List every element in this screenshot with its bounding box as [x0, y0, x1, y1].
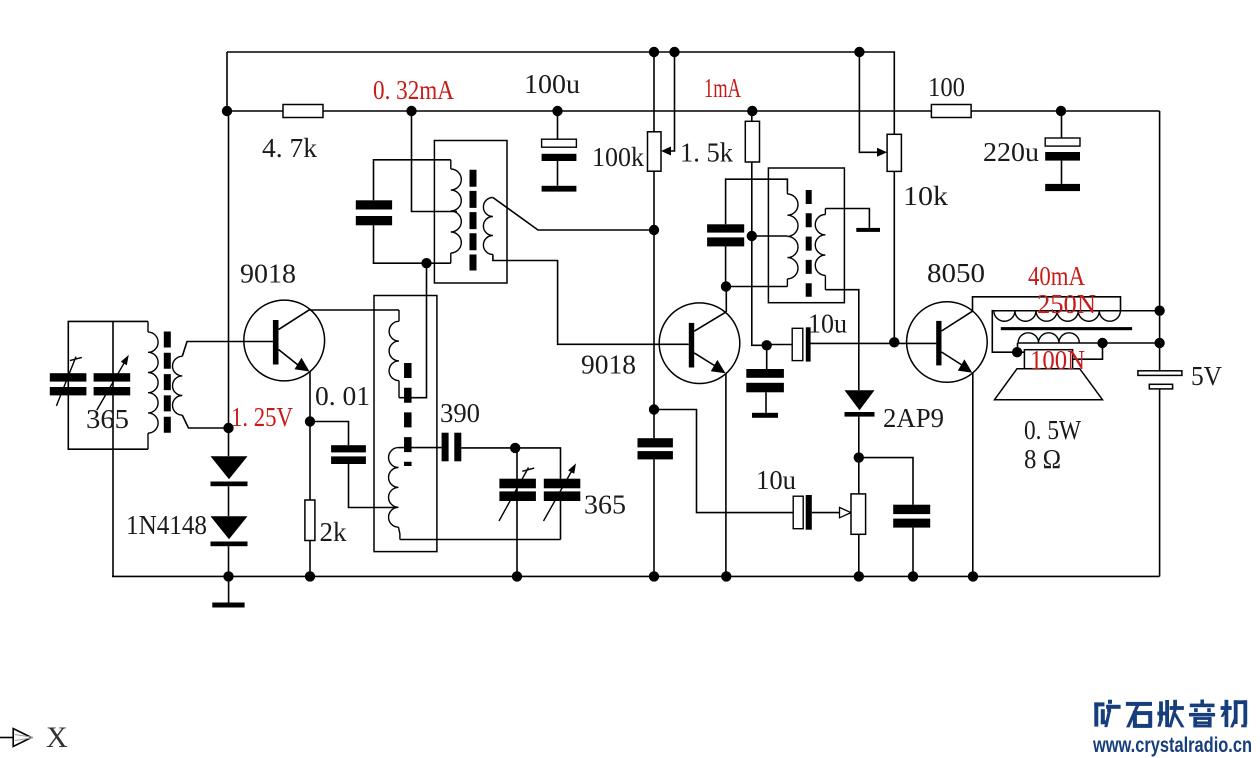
label 100	[928, 72, 965, 102]
node junction dot 21	[1154, 306, 1164, 316]
diode D2 1N4148	[211, 516, 248, 546]
wire Q1 base from T1 secondary	[182, 342, 273, 357]
label 250N	[1037, 289, 1096, 319]
svg-text:250N: 250N	[1037, 289, 1096, 319]
label 100k	[592, 142, 644, 172]
label 10u coupling	[808, 309, 847, 339]
wire 390 to tank2	[461, 447, 515, 449]
label 1N4148	[126, 510, 207, 540]
svg-text:10u: 10u	[808, 309, 847, 339]
wire T5 primary left end down	[992, 311, 1024, 353]
svg-text:365: 365	[584, 490, 626, 520]
inductor T3 upper	[389, 310, 399, 398]
svg-text:2k: 2k	[320, 517, 348, 547]
capacitor C2 0.01	[331, 445, 366, 464]
node junction dot 3	[854, 47, 864, 57]
svg-text:100N: 100N	[1030, 345, 1085, 375]
label 9018 Q2	[581, 350, 636, 380]
svg-text:365: 365	[86, 404, 129, 434]
wire T1 secondary bottom to bias node	[182, 415, 228, 428]
node junction dot 1	[649, 47, 659, 57]
capacitor C1b variable 365	[94, 373, 131, 395]
capacitor C5 390	[442, 433, 462, 462]
wire top supply rail	[227, 52, 894, 134]
capacitor C7 T4 resonator	[707, 224, 744, 246]
wire T4 primary top to tank cap	[726, 179, 788, 286]
inductor T5 secondary 100N	[1018, 333, 1160, 343]
label 100N	[1030, 345, 1085, 375]
wire bottom ground rail	[112, 575, 1160, 577]
logo crystalradio chinese	[1094, 700, 1247, 728]
wire T2 secondary bottom to Q2 base	[493, 255, 689, 345]
wire battery negative to ground rail	[1159, 389, 1161, 577]
svg-text:8050: 8050	[927, 258, 985, 288]
label 1.5k	[680, 138, 733, 168]
arrow C1b tuning	[97, 355, 129, 410]
wire tank2 top and right side	[515, 448, 560, 540]
wire detector output to filter cap	[859, 458, 913, 577]
inductor T5 primary 250N	[994, 311, 1160, 322]
wire Q2 collector node to T4 bottom	[726, 287, 787, 313]
node junction dot 29	[854, 571, 864, 581]
logo crystalradio url	[1092, 733, 1252, 757]
wire T2 bottom node to T3 winding	[399, 263, 427, 398]
ground below diodes	[212, 603, 244, 608]
core T1	[164, 332, 171, 434]
node junction dot 15	[854, 452, 864, 462]
node junction dot 24	[223, 571, 233, 581]
wire 100k pot bottom / detector bus	[653, 171, 655, 576]
node junction dot 25	[305, 571, 315, 581]
inductor T4 secondary	[815, 209, 825, 290]
node junction dot 9	[421, 258, 431, 268]
wire Q1 collector to T3	[310, 309, 400, 311]
node junction dot 20	[1097, 338, 1107, 348]
wire tank1 centre branch to ground rail	[112, 321, 114, 576]
wire T5 secondary left end to speaker node	[1017, 343, 1019, 352]
node junction dot 14	[649, 404, 659, 414]
potentiometer RP3 volume	[851, 494, 866, 534]
label 1.25V	[231, 402, 293, 432]
node junction dot 6	[552, 106, 562, 116]
wire 1.5k branch down to Q2 junction	[752, 111, 767, 345]
transistor Q3 8050	[907, 302, 988, 383]
node junction dot 26	[512, 571, 522, 581]
wire 2AP9 cathode to volume pot	[858, 417, 860, 577]
ground T4 secondary top	[856, 228, 880, 232]
svg-text:220u: 220u	[983, 137, 1040, 167]
node junction dot 13	[889, 337, 899, 347]
wire 10k pot wiper arm	[859, 52, 887, 157]
label 365 tank1	[86, 404, 129, 434]
node junction dot 7	[747, 106, 757, 116]
node junction dot 2	[669, 47, 679, 57]
svg-text:1. 5k: 1. 5k	[680, 138, 733, 168]
svg-text:1N4148: 1N4148	[126, 510, 207, 540]
capacitor C12 10u volume	[793, 495, 812, 530]
svg-text:100k: 100k	[592, 142, 644, 172]
wire 100k pot top to top rail	[653, 52, 655, 132]
svg-text:0. 5W: 0. 5W	[1024, 415, 1081, 445]
wire node B1 branch down to T2 tap	[412, 111, 458, 212]
node junction dot 17	[305, 416, 315, 426]
label 9018 Q1	[240, 259, 296, 289]
node junction dot 23	[721, 281, 731, 291]
node T4 frame box	[768, 168, 844, 303]
wire T4 secondary top to RF ground	[825, 209, 869, 228]
wire diode bias branch	[228, 428, 230, 576]
inductor T1 secondary	[173, 356, 183, 415]
core T3	[404, 363, 412, 466]
wire T4 centre tap	[752, 235, 788, 237]
label 8050	[927, 258, 985, 288]
svg-text:X: X	[46, 721, 68, 754]
node junction dot 12	[762, 340, 772, 350]
inductor T3 lower	[389, 448, 400, 540]
ground below 220u	[1045, 184, 1080, 191]
node T2 frame box	[434, 141, 507, 284]
capacitor C8 detector filter	[638, 438, 673, 459]
svg-text:1mA: 1mA	[704, 73, 741, 103]
label 1mA	[704, 73, 741, 103]
capacitor C13 AF filter	[893, 505, 930, 528]
transistor Q1 9018	[244, 300, 325, 381]
wire T2 resonating cap loop	[374, 160, 451, 263]
inductor T2 secondary	[483, 198, 493, 255]
wire 10k pot bottom to Q3 base	[893, 171, 895, 342]
diode D1 1N4148	[211, 456, 248, 486]
wire 220u cap branch	[1061, 111, 1063, 184]
wire 0.01 cap branch	[310, 422, 396, 508]
wire Q2 emitter to ground rail	[725, 373, 727, 576]
capacitor C10 10u coupling	[792, 327, 810, 361]
label 0.01	[315, 381, 370, 411]
diode D3 2AP9	[845, 390, 875, 416]
node junction dot 28	[721, 571, 731, 581]
node junction dot 10	[649, 225, 659, 235]
capacitor C6b variable 365	[544, 479, 581, 501]
potentiometer RP1 100k	[648, 132, 662, 171]
node junction dot 16	[223, 423, 233, 433]
svg-text:8 Ω: 8 Ω	[1024, 444, 1061, 474]
svg-text:390: 390	[440, 398, 480, 428]
svg-text:40mA: 40mA	[1028, 261, 1085, 291]
inductor T4 primary	[787, 192, 798, 287]
svg-text:10k: 10k	[903, 181, 949, 211]
transistor Q2 9018	[659, 303, 740, 384]
svg-text:www.crystalradio.cn: www.crystalradio.cn	[1092, 733, 1252, 757]
inductor T2 primary	[451, 160, 462, 263]
svg-text:10u: 10u	[756, 465, 796, 495]
capacitor C1a variable 365	[50, 373, 87, 395]
node junction dot 11	[747, 231, 757, 241]
arrow C1a trimmer	[56, 357, 81, 406]
core T2	[470, 170, 477, 271]
capacitor C6a variable 365	[499, 479, 536, 501]
resistor R1 4.7k	[283, 105, 323, 118]
wire 10u coupling to Q3 base	[767, 343, 937, 344]
wire main B+ rail	[227, 110, 1160, 112]
wire T4 secondary bottom to 2AP9	[825, 290, 858, 391]
label 4.7k	[262, 133, 318, 163]
wire 100k pot wiper arm	[661, 52, 675, 156]
resistor R4 100	[931, 105, 971, 118]
capacitor C9 Q2 bypass	[746, 369, 784, 392]
svg-text:9018: 9018	[240, 259, 296, 289]
wire T3 lower bottom stub	[400, 539, 561, 541]
node tank1 frame	[68, 321, 148, 449]
label 40mA	[1028, 261, 1085, 291]
label 0.5W	[1024, 415, 1081, 445]
label 2k	[320, 517, 348, 547]
label 365 tank2	[584, 490, 626, 520]
node junction dot 22	[1154, 338, 1164, 348]
node junction dot 19	[1012, 347, 1022, 357]
svg-text:1. 25V: 1. 25V	[231, 402, 293, 432]
wire 100u cap branch	[557, 111, 559, 186]
wire T3 lower top stub to 390	[399, 447, 442, 449]
node junction dot 8	[1056, 106, 1066, 116]
resistor R2 2k	[305, 500, 315, 541]
label 390	[440, 398, 480, 428]
ground below Q2 bypass	[752, 413, 778, 418]
capacitor C3 T2 resonator	[356, 200, 392, 225]
svg-text:5V: 5V	[1191, 361, 1222, 391]
core T4	[806, 190, 812, 297]
capacitor C4 100u	[542, 139, 577, 161]
wire Q2 bypass branch	[765, 345, 768, 413]
wire right supply drop to battery	[1159, 111, 1161, 371]
label 0.32mA	[373, 75, 454, 105]
node junction dot 4	[222, 106, 232, 116]
label 8 ohm	[1024, 444, 1061, 474]
label 10k	[903, 181, 949, 211]
svg-text:2AP9: 2AP9	[883, 403, 944, 433]
arrow C6b tuning	[544, 463, 577, 521]
svg-text:0. 01: 0. 01	[315, 381, 370, 411]
svg-text:100: 100	[928, 72, 965, 102]
wire T2 secondary top to node	[493, 198, 654, 231]
potentiometer RP2 10k	[887, 134, 901, 171]
inductor T1 primary	[148, 321, 158, 449]
wire volume wiper	[812, 507, 851, 517]
node junction dot 5	[406, 106, 416, 116]
svg-text:100u: 100u	[524, 69, 581, 99]
speaker BL	[995, 350, 1103, 400]
label 100u	[524, 69, 581, 99]
label 5V	[1191, 361, 1222, 391]
resistor R3 1.5k	[745, 121, 759, 162]
wire Q3 emitter to ground rail	[972, 373, 974, 577]
label 10u volume	[756, 465, 796, 495]
node junction dot 31	[968, 571, 978, 581]
wire ground stem below diodes	[228, 576, 230, 602]
svg-text:0. 32mA: 0. 32mA	[373, 75, 454, 105]
node junction dot 27	[649, 571, 659, 581]
wire diode bias vertical from B+ node	[228, 111, 230, 428]
wire Q1 emitter branch	[309, 371, 311, 576]
wire tank2 left cap to ground rail	[516, 448, 518, 577]
wire AGC feed to volume cap	[654, 410, 793, 513]
capacitor C11 220u	[1045, 138, 1080, 161]
label 2AP9	[883, 403, 944, 433]
battery BT1 5V	[1138, 371, 1182, 389]
svg-text:4. 7k: 4. 7k	[262, 133, 318, 163]
wire speaker right terminal	[1073, 343, 1103, 359]
svg-text:9018: 9018	[581, 350, 636, 380]
node junction dot 30	[908, 571, 918, 581]
ground below 100u	[542, 186, 577, 192]
cursor mark arrow	[0, 729, 33, 747]
label 220u	[983, 137, 1040, 167]
node junction dot 18	[510, 443, 520, 453]
core T5	[1001, 327, 1132, 330]
arrow C6a trimmer	[499, 468, 534, 522]
node T3 frame box	[374, 296, 437, 552]
wire Q3 collector to output transformer	[973, 297, 1121, 311]
cursor mark X	[46, 721, 68, 754]
